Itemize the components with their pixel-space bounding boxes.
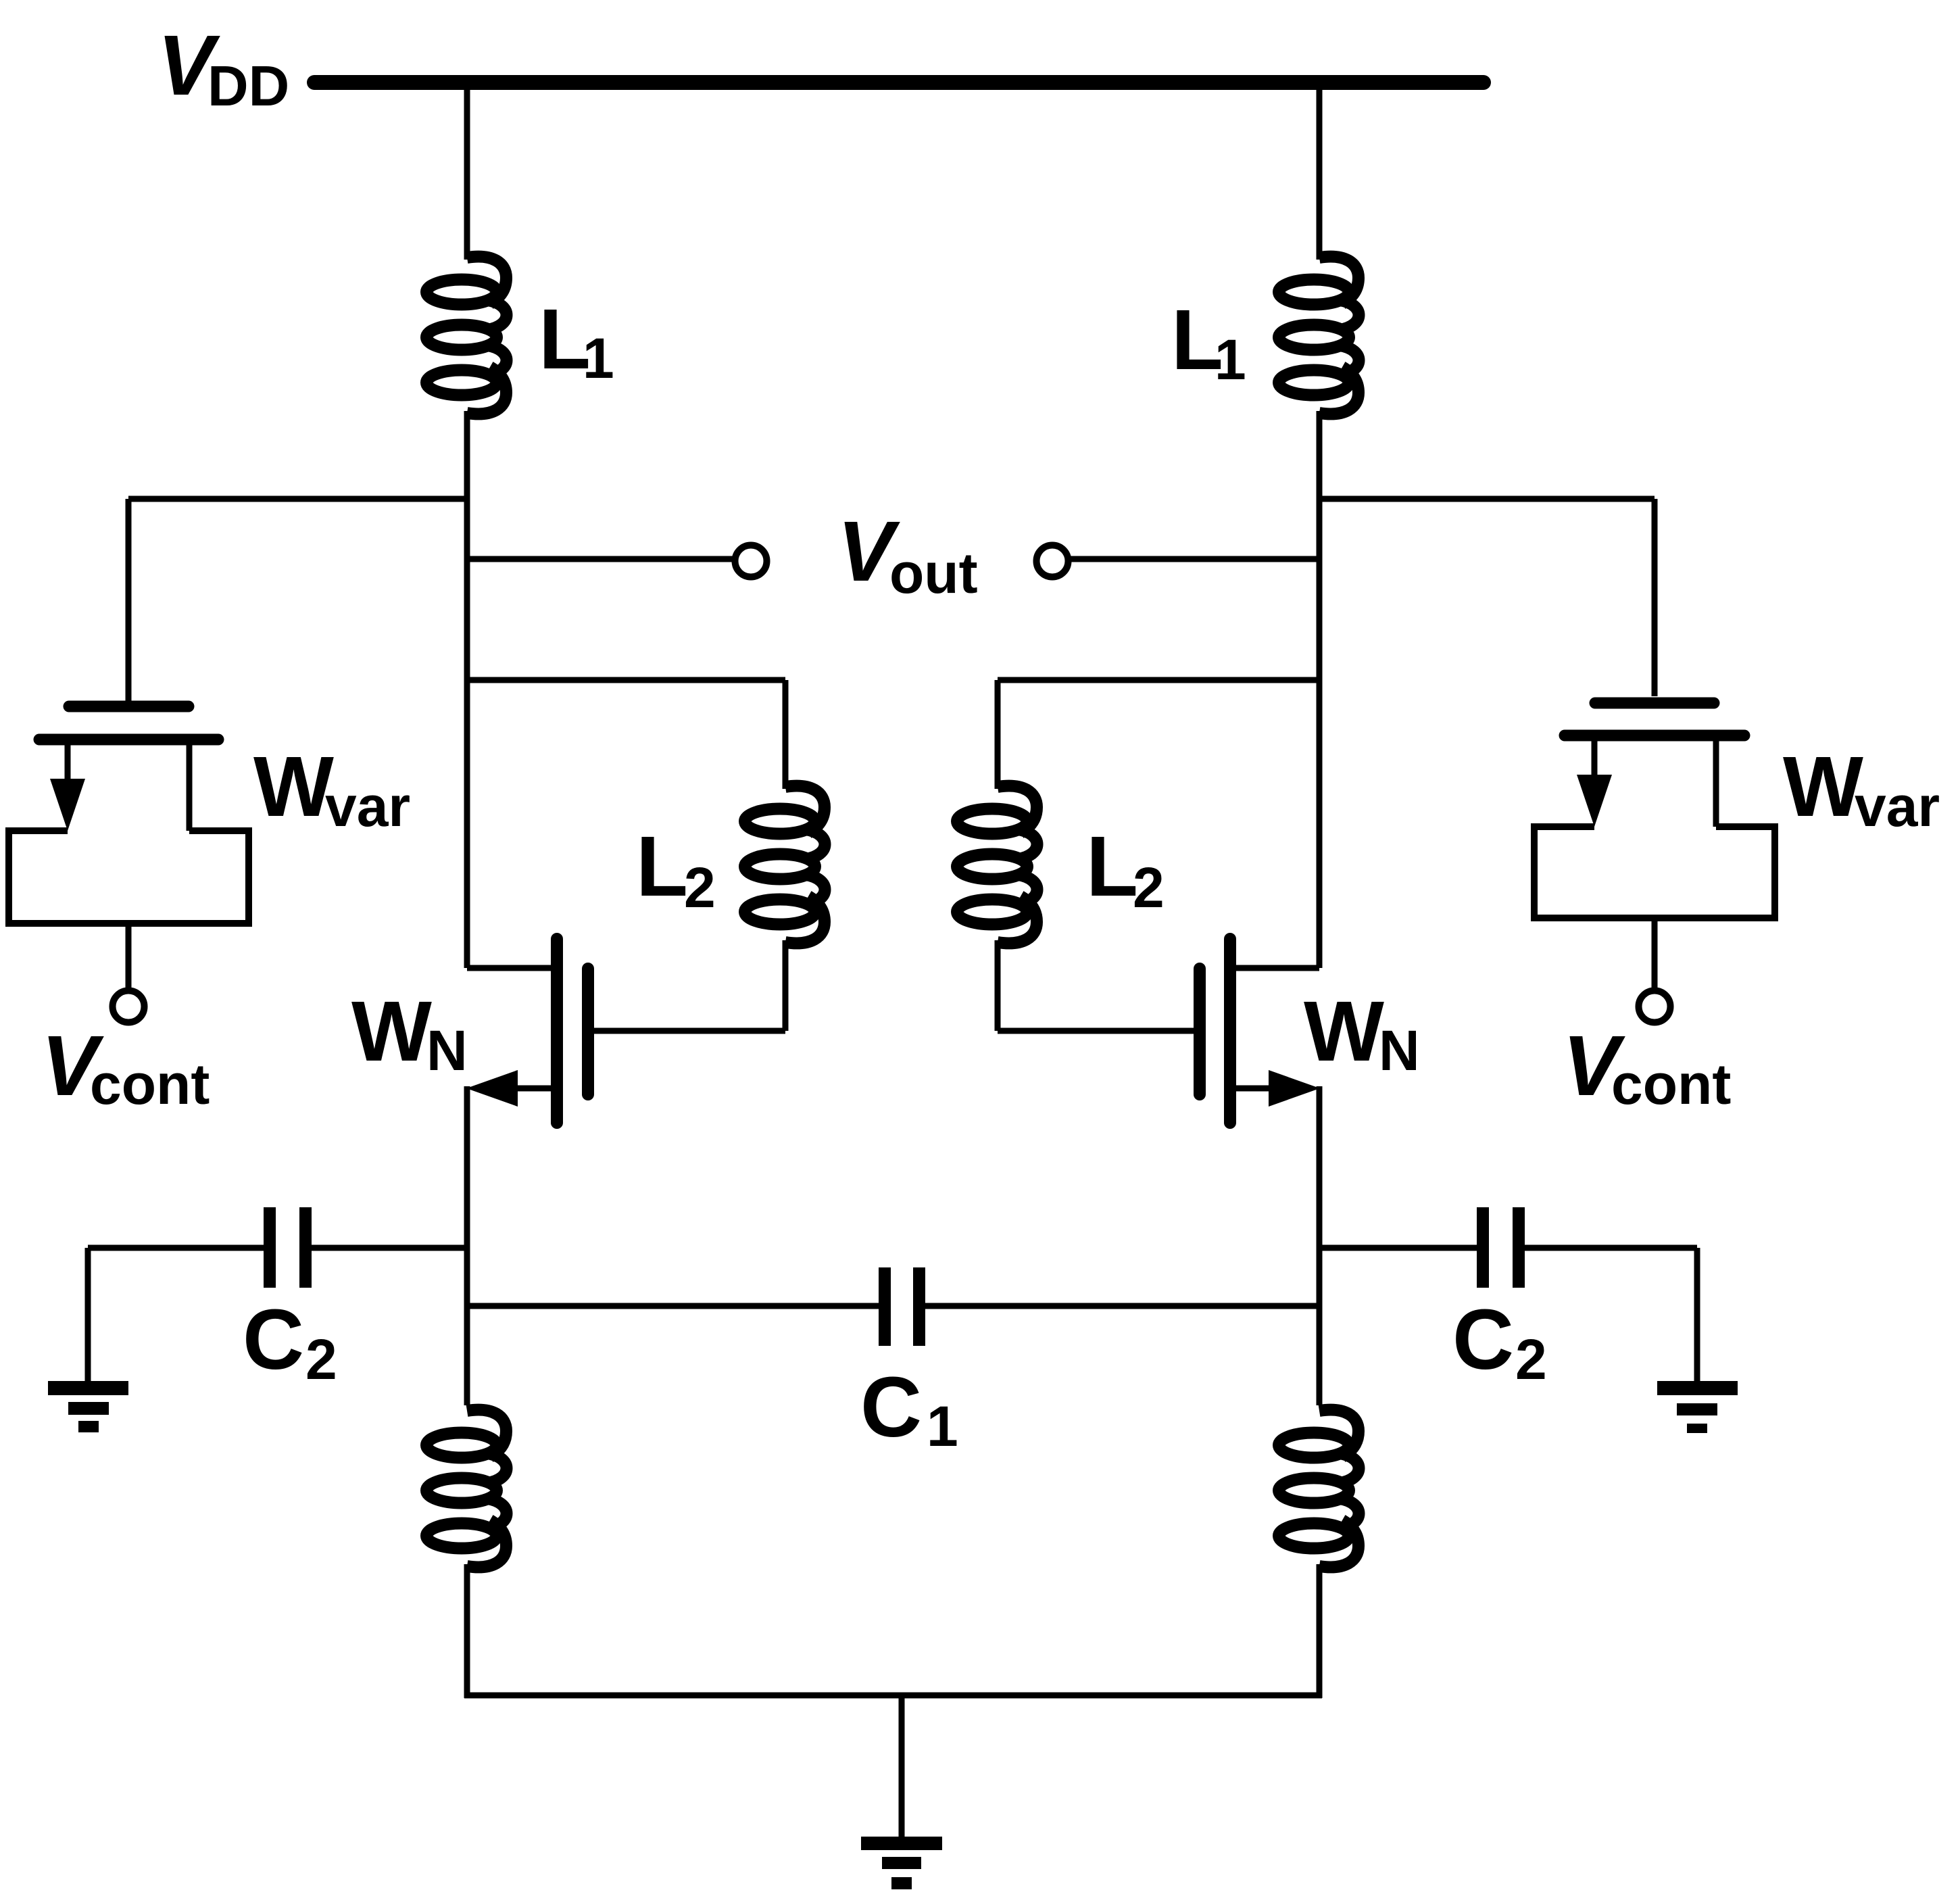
left terminal stub — [65, 740, 71, 781]
wire: bottom rail — [464, 1693, 1322, 1699]
svg-text:cont: cont — [1611, 1052, 1731, 1116]
gate plate bar — [1595, 698, 1714, 709]
left terminal stub — [1592, 735, 1598, 777]
inductor tail (left) — [426, 1410, 507, 1568]
svg-text:2: 2 — [684, 856, 716, 919]
plate 2 — [299, 1207, 312, 1288]
drain lead — [1236, 965, 1319, 971]
wire: right L2 upper lead — [995, 680, 1001, 789]
wire: left L2 lower lead — [783, 940, 789, 1031]
source lead — [1236, 1086, 1309, 1092]
capacitor C2 (left) — [88, 1207, 467, 1288]
VDD label — [157, 18, 289, 118]
node: Vout right terminal — [1037, 546, 1069, 577]
svg-text:W: W — [1783, 739, 1863, 834]
wire: Vout left lead — [467, 556, 733, 562]
varactor Wvar (right) — [1534, 703, 1775, 988]
label Wvar (right) — [1783, 739, 1940, 838]
svg-text:2: 2 — [1515, 1328, 1547, 1391]
svg-text:L: L — [1086, 819, 1138, 914]
inductor L1 (right) — [1279, 257, 1359, 414]
svg-text:N: N — [1379, 1019, 1420, 1082]
bulk tub — [9, 831, 249, 923]
drain lead — [467, 965, 551, 971]
Vcont lead — [126, 923, 132, 988]
wire: left varactor gate lead — [126, 499, 132, 701]
wire: right tail to bottom rail — [1317, 1564, 1323, 1698]
inductor L2 (right) — [957, 786, 1037, 944]
svg-text:L: L — [636, 819, 688, 914]
wire to plate — [88, 1245, 265, 1251]
bulk tub — [1534, 827, 1775, 918]
svg-text:W: W — [351, 984, 432, 1079]
svg-text:N: N — [426, 1019, 468, 1082]
label WN (left) — [351, 984, 468, 1082]
inductor L2 (left) — [745, 786, 825, 944]
VDD supply rail — [314, 75, 1484, 90]
source arrow — [1269, 1070, 1320, 1107]
node: Vcont left terminal — [113, 991, 145, 1023]
label Vout — [837, 504, 978, 605]
node: Vcont right terminal — [1639, 991, 1671, 1023]
source arrow — [466, 1070, 518, 1107]
svg-text:1: 1 — [927, 1395, 958, 1458]
ground (right) — [1657, 1381, 1738, 1433]
transistor WN (left) — [466, 939, 588, 1123]
capacitor C1 — [467, 1267, 1319, 1346]
label L1 (right) — [1171, 292, 1246, 391]
label C2 (right) — [1452, 1292, 1547, 1391]
wire: right L2 lower lead — [995, 940, 1001, 1031]
arrow into bulk — [50, 779, 85, 831]
label C1 — [860, 1359, 958, 1458]
wire from plate — [1523, 1245, 1697, 1251]
wire: right L2 top branch — [998, 677, 1319, 683]
wire: left C2 to ground — [85, 1248, 91, 1384]
wire to plate — [467, 1303, 880, 1309]
svg-text:W: W — [1304, 984, 1384, 1079]
wire: left column from L1 down to drain of WN — [464, 411, 470, 968]
svg-text:C: C — [243, 1292, 304, 1387]
svg-text:1: 1 — [1215, 328, 1246, 391]
wire: left varactor branch — [128, 496, 467, 502]
svg-text:cont: cont — [90, 1052, 210, 1116]
channel bar — [551, 939, 563, 1123]
plate 2 — [913, 1267, 925, 1346]
inductor tail (right) — [1279, 1410, 1359, 1568]
transistor WN (right) — [1200, 939, 1320, 1123]
label L1 (left) — [539, 291, 614, 390]
svg-text:2: 2 — [1133, 856, 1165, 919]
wire: left tail to bottom rail — [464, 1564, 470, 1698]
channel plate bar — [1565, 730, 1744, 742]
svg-text:C: C — [860, 1359, 922, 1455]
wire: left L2 upper lead — [783, 680, 789, 789]
wire from plate — [924, 1303, 1319, 1309]
channel plate bar — [39, 734, 218, 746]
Vcont lead — [1652, 918, 1658, 988]
wire from plate — [310, 1245, 467, 1251]
label L2 (right) — [1086, 819, 1165, 919]
wire: right column from L1 down to drain of WN — [1317, 411, 1323, 968]
arrow into bulk — [1577, 775, 1612, 827]
gate plate bar — [69, 701, 189, 712]
wire: right varactor gate lead — [1652, 499, 1658, 696]
source lead — [477, 1086, 551, 1092]
label C2 (left) — [243, 1292, 337, 1391]
wire: left column source to tail — [464, 1086, 470, 1405]
inductor L1 (left) — [426, 257, 507, 414]
label L2 (left) — [636, 819, 716, 919]
svg-text:C: C — [1452, 1292, 1514, 1387]
right terminal stub — [187, 740, 193, 831]
ground (tail) — [861, 1837, 942, 1889]
label Wvar (left) — [253, 739, 410, 838]
gate bar — [582, 969, 594, 1094]
label Vcont (right) — [1563, 1018, 1731, 1116]
capacitor C2 (right) — [1319, 1207, 1697, 1288]
plate 2 — [1513, 1207, 1525, 1288]
plate 1 — [264, 1207, 276, 1288]
right terminal stub — [1713, 735, 1719, 827]
label WN (right) — [1304, 984, 1420, 1082]
wire: right column source to tail — [1317, 1086, 1323, 1405]
wire: right column from VDD rail to L1 — [1317, 82, 1323, 260]
wire: left column from VDD rail to L1 — [464, 82, 470, 260]
varactor Wvar (left) — [9, 706, 249, 988]
gate bar — [1194, 969, 1206, 1094]
wire: tail ground stub — [899, 1695, 905, 1837]
svg-text:var: var — [325, 775, 410, 838]
wire: right varactor branch — [1319, 496, 1655, 502]
svg-text:var: var — [1855, 775, 1940, 838]
wire to plate — [1319, 1245, 1478, 1251]
svg-text:W: W — [253, 739, 334, 834]
wire: right C2 to ground — [1694, 1248, 1700, 1383]
svg-text:out: out — [889, 541, 978, 605]
svg-text:2: 2 — [305, 1328, 337, 1391]
wire: left gate line — [583, 1028, 785, 1034]
node: Vout left terminal — [735, 546, 767, 577]
plate 1 — [1477, 1207, 1489, 1288]
wire: Vout right lead — [1070, 556, 1319, 562]
svg-text:1: 1 — [583, 326, 614, 390]
wire: right gate line — [998, 1028, 1206, 1034]
svg-text:DD: DD — [207, 54, 289, 118]
label Vcont (left) — [41, 1018, 210, 1116]
channel bar — [1224, 939, 1236, 1123]
wire: left L2 top branch — [467, 677, 785, 683]
plate 1 — [879, 1267, 891, 1346]
ground (left) — [48, 1381, 128, 1432]
